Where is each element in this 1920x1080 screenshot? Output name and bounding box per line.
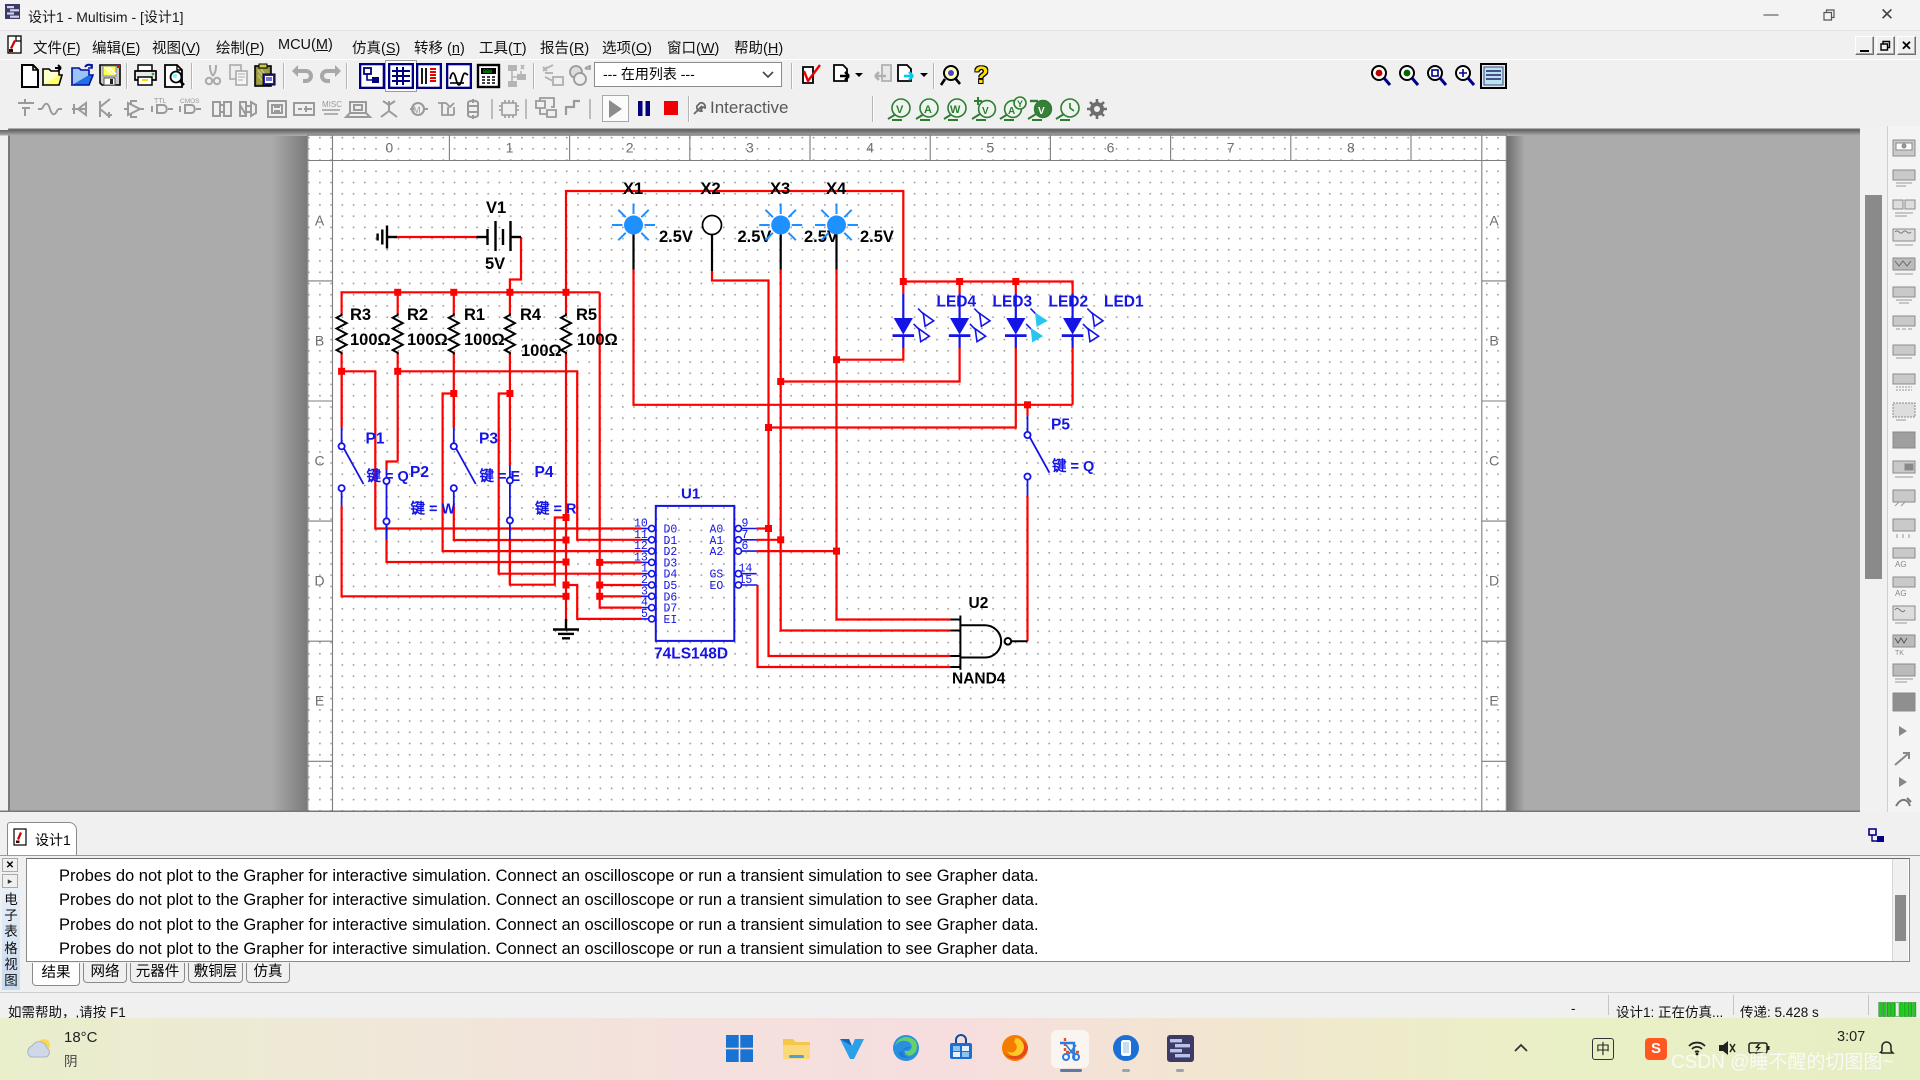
wire X2 to A0 net [712, 271, 950, 656]
svg-text:MISC: MISC [322, 100, 342, 109]
sheet [307, 135, 1507, 812]
svg-text:EI: EI [664, 614, 678, 627]
wire X1 to P5/LED1 net [634, 270, 1073, 405]
svg-text:C: C [314, 453, 324, 469]
svg-text:TK: TK [1895, 650, 1904, 657]
resistor R2 [393, 314, 403, 355]
svg-text:2: 2 [626, 140, 634, 156]
wire U1 EI to ground bus [566, 585, 642, 619]
LED LED2 (lit) [1005, 294, 1048, 348]
svg-text:4: 4 [866, 140, 874, 156]
svg-text:NAND4: NAND4 [952, 671, 1006, 688]
svg-text:TTL: TTL [154, 98, 167, 105]
indicator X1 [612, 204, 655, 270]
svg-text:5: 5 [641, 608, 648, 621]
print [133, 63, 159, 89]
wire R3 node to U1 D0 [342, 371, 642, 528]
LED LED3 [949, 294, 990, 348]
svg-text:V: V [896, 104, 904, 116]
svg-text:X4: X4 [826, 180, 847, 198]
wire P4 bottom stub red [509, 540, 511, 585]
stop [664, 101, 678, 115]
wire R1 top lead [453, 292, 455, 313]
left strip [2, 858, 18, 872]
svg-text:键 = W: 键 = W [410, 500, 456, 518]
find [939, 63, 965, 89]
junction R5 ground node [563, 514, 570, 521]
wire R2 bottom to node [397, 353, 399, 462]
wire R4 top lead [509, 292, 511, 313]
vertical scrollbar [1860, 126, 1887, 812]
store [947, 1034, 975, 1062]
svg-text:键 = E: 键 = E [479, 467, 521, 485]
watermark [1671, 1047, 1894, 1074]
svg-text:P4: P4 [535, 464, 554, 481]
svg-text:P2: P2 [410, 464, 429, 481]
wire U1 D6 [600, 595, 642, 597]
MDI child window buttons [1855, 36, 1917, 56]
svg-text:键 = Q: 键 = Q [1051, 457, 1094, 475]
weather widget [25, 1035, 55, 1063]
battery V1 [477, 221, 522, 251]
junction R2 top [394, 289, 401, 296]
junction R1 node [450, 390, 457, 397]
junction ground bus P3 [563, 537, 570, 544]
svg-text:V: V [982, 106, 989, 117]
multisim taskbar icon [1166, 1034, 1195, 1063]
svg-text:100Ω: 100Ω [577, 331, 618, 349]
junction +5V D6 [596, 593, 603, 600]
svg-text:B: B [315, 333, 324, 349]
svg-text:6: 6 [742, 540, 749, 553]
wire R2 node to U1 D1 [398, 371, 642, 540]
wire R2 node to P2 [387, 462, 398, 471]
wire battery negative to ground [397, 236, 477, 238]
svg-text:D: D [1489, 573, 1499, 589]
database (blue framed) [416, 63, 442, 89]
wire P5 top [1026, 405, 1028, 416]
svg-text:C: C [1489, 453, 1499, 469]
svg-text:U2: U2 [969, 595, 989, 612]
junction A0 [765, 525, 772, 532]
resistor R1 [449, 314, 459, 355]
svg-text:V1: V1 [486, 199, 506, 217]
svg-text:P3: P3 [479, 431, 498, 448]
wire R4 bottom to node [509, 353, 511, 467]
hierarchy (disabled) [505, 63, 531, 89]
wire P5 bottom to U2 output [1026, 496, 1028, 642]
svg-text:2.5V: 2.5V [860, 228, 894, 246]
wire U1 A0 to X2 net [757, 527, 769, 529]
wire LED4 cathode to X4 net [837, 348, 904, 360]
junction R1 top [450, 289, 457, 296]
wire X4 to A2 net [837, 270, 951, 620]
interactive label [692, 101, 707, 116]
snip (active) [1051, 1030, 1089, 1068]
phone link [1112, 1034, 1140, 1062]
svg-text:A2: A2 [710, 546, 724, 559]
svg-text:键 = R: 键 = R [534, 500, 577, 518]
svg-text:5V: 5V [485, 255, 505, 273]
spreadsheet view (active) [385, 60, 417, 92]
svg-text:888: 888 [483, 69, 492, 75]
svg-text:AG: AG [1895, 589, 1907, 598]
wire +5V vertical to U1 D3 D5 D6 D7 [600, 292, 642, 607]
SCHEMATIC-WIRES [342, 191, 1073, 667]
svg-text:5: 5 [986, 140, 994, 156]
firefox [1001, 1034, 1029, 1062]
svg-text:LED1: LED1 [1104, 294, 1144, 311]
edge [892, 1034, 920, 1062]
svg-text:M: M [413, 105, 421, 115]
win [726, 1035, 753, 1062]
play button [602, 95, 629, 122]
wire LED2 cathode to X2 net [769, 348, 1016, 428]
LED LED4 [893, 294, 934, 348]
zoom toolbar [1368, 63, 1394, 89]
ground GND2 [553, 619, 579, 638]
in-use list combo [594, 62, 782, 87]
svg-text:LED3: LED3 [993, 294, 1033, 311]
wire R3 top lead [341, 291, 343, 313]
junction X4/LED4 [833, 356, 840, 363]
svg-text:3: 3 [746, 140, 754, 156]
grapher (blue framed) [446, 63, 472, 89]
switch P2 (closed) [383, 470, 389, 540]
wire P2 bottom to ground bus [387, 540, 567, 563]
wire P1 bottom to ground bus [342, 506, 566, 596]
component group icons (disabled) [18, 99, 34, 116]
svg-text:U1: U1 [681, 486, 700, 503]
svg-text:8: 8 [1347, 140, 1355, 156]
svg-text:AG: AG [1895, 560, 1907, 569]
svg-text:P1: P1 [366, 431, 385, 448]
undo [289, 63, 315, 89]
svg-text:100Ω: 100Ω [350, 331, 391, 349]
svg-text:LED2: LED2 [1049, 294, 1089, 311]
print preview [161, 63, 187, 89]
wire ground bus vertical [565, 518, 567, 620]
wire LED2 anode stub [1015, 282, 1017, 295]
open [41, 63, 67, 89]
wire LED1 cathode to X1 net [1071, 348, 1073, 405]
junction LED3 anode [956, 278, 963, 285]
wire R5 top lead [565, 292, 567, 313]
wire R4 node to U1 D4 [499, 394, 642, 574]
svg-text:X2: X2 [701, 180, 721, 198]
svg-text:E: E [315, 693, 324, 709]
wire LED3 cathode to X3 net [781, 348, 960, 382]
junction +5V D5 [596, 582, 603, 589]
svg-text:15: 15 [739, 574, 753, 587]
V app [838, 1034, 866, 1062]
svg-text:R1: R1 [464, 306, 485, 324]
save [98, 63, 124, 89]
svg-text:D: D [314, 573, 324, 589]
wire LED3 anode stub [958, 282, 960, 295]
svg-text:2.5V: 2.5V [738, 228, 772, 246]
switch P4 (closed) [507, 466, 513, 540]
gear [1087, 99, 1107, 119]
svg-text:100Ω: 100Ω [407, 331, 448, 349]
wire X3 to A1 net [781, 270, 951, 631]
svg-text:R2: R2 [407, 306, 428, 324]
junction V1/R4 top [506, 289, 513, 296]
back annotate (disabled) [872, 63, 898, 89]
letter row lines [307, 280, 332, 282]
junction ground bus P1 [563, 593, 570, 600]
junction +5V D3 [596, 559, 603, 566]
wire LED anode bus [903, 282, 1072, 294]
wire U1 D5 [600, 584, 642, 586]
svg-text:E: E [1489, 693, 1498, 709]
svg-text:R4: R4 [520, 306, 542, 324]
wire P1 top lead [341, 371, 343, 427]
resistor R4 [505, 314, 515, 355]
redo [318, 63, 344, 89]
svg-text:A: A [315, 213, 325, 229]
help [974, 62, 996, 88]
svg-text:6: 6 [1107, 140, 1115, 156]
switch P5 [1024, 416, 1049, 496]
indicator X3 [759, 204, 802, 270]
export netlist [830, 63, 856, 89]
junction P5 top [1024, 401, 1031, 408]
IC U1 74LS148D [634, 506, 758, 641]
copy (disabled) [227, 63, 253, 89]
wire R5 bottom to ground bus [565, 353, 567, 518]
forward annotate [894, 63, 920, 89]
wire P2 to R2 node segment [385, 524, 387, 540]
right instruments toolbar [1887, 126, 1920, 812]
junction R5 top [563, 289, 570, 296]
svg-text:A: A [1489, 213, 1499, 229]
wire +5V rail to lamp row [566, 191, 903, 292]
indicator X4 [815, 204, 858, 270]
junction LED2 anode [1012, 278, 1019, 285]
NAND gate U2 [950, 616, 1027, 670]
wire R2 top lead [397, 292, 399, 313]
svg-text:EO: EO [710, 580, 724, 593]
tray [1513, 1042, 1529, 1054]
wire P3 top lead [453, 394, 455, 428]
LED LED1 [1062, 294, 1103, 349]
resistor R5 [561, 314, 571, 355]
db manager (disabled) [567, 63, 593, 89]
resistor R3 [337, 314, 347, 355]
svg-text:100Ω: 100Ω [521, 342, 562, 360]
svg-text:B: B [1489, 333, 1498, 349]
junction dots [338, 278, 1031, 600]
svg-text:CMOS: CMOS [180, 98, 200, 105]
junction A1 [777, 536, 784, 543]
junction ground bus EI [563, 582, 570, 589]
ruler ticks [448, 135, 450, 160]
svg-text:P5: P5 [1051, 417, 1070, 434]
cut (disabled) [200, 63, 226, 89]
junction A2 [833, 548, 840, 555]
svg-text:R3: R3 [350, 306, 371, 324]
svg-text:0: 0 [385, 140, 393, 156]
switch P1 [339, 428, 364, 506]
wire U1 D3 [600, 561, 642, 563]
folder [782, 1035, 811, 1062]
wire U1 A2 to X4 net [757, 550, 837, 552]
svg-text:74LS148D: 74LS148D [654, 646, 728, 663]
ERC check [799, 63, 825, 89]
main box [26, 858, 1910, 962]
pause [637, 101, 651, 116]
indicator X2 (off) [703, 216, 722, 272]
svg-text:A: A [924, 104, 932, 116]
wire R1 node to U1 D2 [443, 394, 642, 552]
wire +5V bus [342, 291, 600, 293]
wire battery positive to +5V bus [510, 237, 521, 292]
svg-text:X3: X3 [770, 180, 790, 198]
svg-text:W: W [950, 104, 961, 116]
junction ground bus P2 [563, 559, 570, 566]
junction X2/LED2 [765, 424, 772, 431]
junction R2 node [394, 368, 401, 375]
svg-text:7: 7 [1227, 140, 1235, 156]
component wizard (disabled) [541, 63, 567, 89]
new [17, 63, 43, 89]
svg-text:R5: R5 [576, 306, 597, 324]
junction R4 node [506, 390, 513, 397]
junction R3 node [338, 368, 345, 375]
svg-text:X1: X1 [623, 180, 643, 198]
switch P3 [451, 428, 476, 507]
canvas background [0, 126, 1860, 812]
svg-text:2.5V: 2.5V [659, 228, 693, 246]
wire U1 A1 to X3 net [757, 539, 781, 541]
wire LED4 anode stub [902, 282, 904, 295]
wire U1 EO to U2 input [758, 585, 951, 667]
open sample [70, 63, 96, 89]
design toolbox (blue framed) [359, 63, 385, 89]
bottom tabs [25, 963, 27, 987]
wire jog R5 node to P4 bottom [510, 518, 566, 585]
svg-text:V: V [1038, 106, 1045, 117]
svg-text:100Ω: 100Ω [464, 331, 505, 349]
svg-text:1: 1 [506, 140, 514, 156]
paste [253, 63, 279, 89]
instruments (green) [884, 95, 1124, 124]
wire P3 bottom to ground bus [454, 506, 566, 540]
junction X3/LED3 [777, 378, 784, 385]
svg-text:Y: Y [1017, 99, 1023, 109]
junction LED4 anode [900, 278, 907, 285]
postprocessor [476, 63, 502, 89]
wire R1 bottom to node [453, 353, 455, 428]
svg-text:LED4: LED4 [937, 294, 977, 311]
wire R3 bottom to node [341, 353, 343, 428]
ground GND1 (battery) [378, 226, 397, 249]
svg-text:A: A [1008, 106, 1015, 117]
